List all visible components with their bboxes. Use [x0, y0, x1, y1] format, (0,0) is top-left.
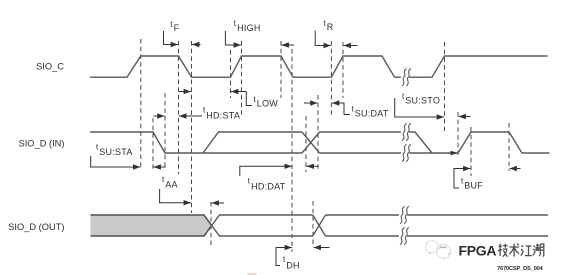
- tAA bracket arrow: [160, 189, 191, 203]
- tSU:DAT left arrow: [304, 102, 318, 104]
- tF bracket arrow: [164, 31, 179, 45]
- dashed line at x=444.5 (SIO_C rise4 top): [444, 42, 446, 131]
- break squiggle SIO_C low: [401, 69, 409, 85]
- svg-text:BUF: BUF: [464, 181, 483, 191]
- tSU:STO right arrow: [459, 116, 471, 118]
- dashed line at x=241.5 (SIO_C rise2 top): [241, 41, 243, 116]
- SIO_D OUT band open after X1: [212, 215, 313, 236]
- dashed line at x=230.5 (SIO_C rise2 start): [230, 50, 232, 98]
- break squiggle SIO_D OUT top rail: [399, 207, 407, 223]
- svg-text:DH: DH: [286, 261, 300, 271]
- svg-text:HIGH: HIGH: [237, 23, 261, 33]
- tHIGH bracket arrow: [225, 31, 241, 45]
- dashed line at x=313 (SIO_D OUT X2 crossing): [312, 201, 314, 247]
- watermark hanzi JIANG (江): [521, 245, 532, 255]
- svg-text:R: R: [327, 22, 334, 32]
- dashed line at x=292 (SIO_C fall2 end, long): [291, 49, 293, 252]
- dashed line at x=211 (SIO_D OUT X1 crossing): [210, 202, 212, 248]
- tSU:STA right arrow: [154, 166, 166, 168]
- svg-text:FPGA: FPGA: [459, 243, 497, 259]
- tSU:STO bracket arrow: [395, 98, 444, 117]
- svg-text:SIO_D (IN): SIO_D (IN): [19, 139, 65, 149]
- tLOW bracket arrow: [231, 92, 252, 106]
- tAA right arrow: [212, 202, 225, 204]
- SIO_D OUT gray region: [91, 215, 212, 236]
- tDH right arrow: [314, 247, 330, 249]
- tF right arrow: [192, 44, 201, 46]
- tBUF right arrow: [510, 168, 521, 170]
- tR right arrow: [344, 45, 358, 47]
- svg-text:7670CSP_DS_004: 7670CSP_DS_004: [497, 266, 544, 272]
- dashed line at x=281 (SIO_C fall2 start): [280, 41, 282, 98]
- dashed line at x=140.8 (SIO_C rise1 top): [140, 39, 142, 169]
- tR bracket arrow: [315, 31, 331, 46]
- dashed line at x=318 (SIO_D IN data stable): [317, 95, 319, 172]
- svg-text:SU:STO: SU:STO: [405, 96, 440, 106]
- tLOW left arrow: [179, 91, 191, 93]
- waveform SIO_C: [90, 56, 548, 77]
- dashed line at x=331.4 (SIO_C rise3 start): [330, 41, 332, 115]
- dashed line at x=458 (SIO_D IN rise start): [457, 112, 459, 158]
- waveform SIO_D (IN) right part: [320, 132, 550, 153]
- break squiggle SIO_D IN low rail: [401, 145, 409, 161]
- SIO_D OUT band right: [326, 215, 549, 236]
- watermark hanzi JI (技): [498, 244, 508, 257]
- SIO_D OUT X2 crossing: [313, 215, 326, 236]
- break squiggle SIO_D OUT bottom rail: [399, 228, 407, 244]
- tHD:STA left arrow: [154, 115, 165, 117]
- watermark bird icon: [426, 241, 451, 259]
- break squiggle SIO_D IN high rail: [401, 124, 409, 140]
- svg-text:SIO_D (OUT): SIO_D (OUT): [8, 222, 64, 232]
- tSU:DAT bracket arrow: [332, 103, 350, 115]
- waveform SIO_D (IN) main: [90, 132, 302, 153]
- svg-text:HD:STA: HD:STA: [206, 111, 240, 121]
- tHD:STA right arrow: [179, 115, 202, 117]
- dashed line at x=306 (SIO_D IN data change left): [305, 116, 307, 172]
- tHIGH right arrow: [282, 44, 295, 46]
- watermark hanzi SHU (术): [509, 243, 519, 256]
- SIO_D IN X crossing: [302, 132, 320, 153]
- svg-text:SIO_C: SIO_C: [36, 62, 64, 72]
- faint pink artifact bottom-left: [247, 273, 257, 275]
- dashed line at x=178.5 (SIO_C fall1 start): [178, 41, 180, 174]
- tSU:STA bracket arrow: [91, 156, 141, 167]
- svg-text:SU:STA: SU:STA: [99, 147, 132, 157]
- dashed line at x=471 (SIO_D IN rise top): [470, 127, 472, 176]
- svg-text:HD:DAT: HD:DAT: [251, 182, 286, 192]
- dashed line at x=153 (SIO_D IN fall start): [152, 118, 154, 170]
- svg-text:AA: AA: [165, 180, 178, 190]
- dashed line at x=509 (SIO_D IN fall2 start): [508, 123, 510, 171]
- dashed line at x=191.5 (SIO_C fall1 end): [191, 41, 193, 213]
- tBUF bracket arrow: [454, 169, 471, 189]
- watermark hanzi HU (湖): [533, 244, 544, 257]
- tHD:DAT bracket arrow: [240, 166, 292, 176]
- dashed line at x=343 (SIO_C rise3 top): [342, 42, 344, 98]
- svg-text:LOW: LOW: [257, 99, 279, 109]
- tDH bracket arrow: [276, 248, 292, 266]
- dashed line at x=165 (SIO_D IN fall end): [164, 93, 166, 169]
- svg-text:F: F: [174, 23, 180, 33]
- tHD:DAT right arrow: [307, 165, 319, 167]
- svg-text:SU:DAT: SU:DAT: [355, 109, 389, 119]
- arrowhead on SIO_D IN low line at stop setup: [451, 151, 459, 155]
